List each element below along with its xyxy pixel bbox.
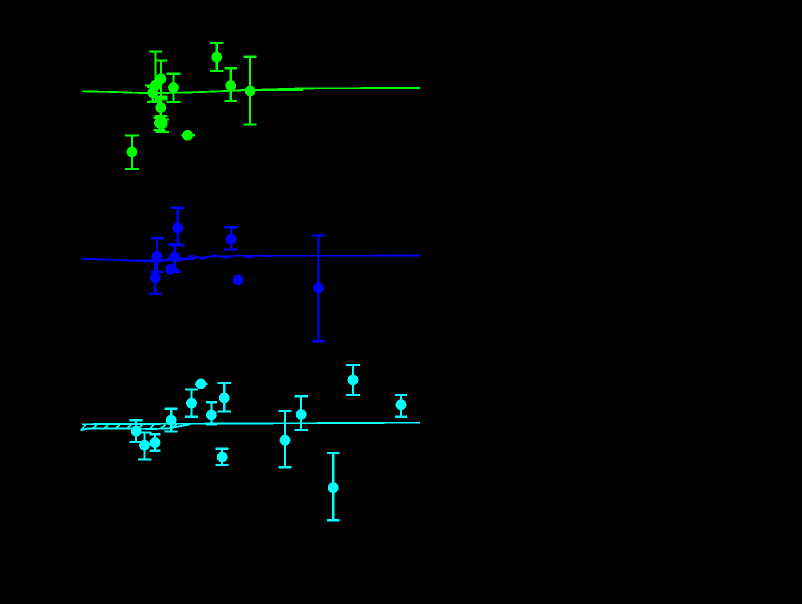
blue point B8 long-bar marker <box>313 283 324 294</box>
cyan point Cb marker <box>186 398 197 409</box>
blue point B2 cluster marker <box>152 251 163 262</box>
blue point B5 marker <box>165 264 176 275</box>
green point G-right horizontal bar <box>239 89 303 91</box>
cyan point Ca horizontal bar <box>195 383 208 385</box>
green point G-right error bar <box>244 57 257 125</box>
blue point B5 horizontal bar <box>167 269 180 271</box>
blue point B8 long-bar error bar <box>312 235 325 341</box>
green point G-top error bar <box>210 43 224 71</box>
cyan point Cj marker <box>280 435 291 446</box>
green point G-top marker <box>211 52 222 63</box>
cyan band lower boundary <box>81 424 191 430</box>
green point G-right marker <box>245 86 256 97</box>
cyan point Ch error bar <box>149 434 160 451</box>
blue point B7 low marker <box>233 275 244 286</box>
blue point B1 high error bar <box>171 208 185 245</box>
green point G-low isolated marker <box>127 147 138 158</box>
green point G-iso marker <box>182 130 193 141</box>
blue point B7 horizontal bar <box>234 279 242 281</box>
blue point B6 mid error bar <box>224 227 238 249</box>
blue point B4 cluster-right marker <box>169 252 180 263</box>
blue fit curve 2 <box>82 255 420 261</box>
cyan point Ce marker <box>166 415 177 426</box>
blue fit curve 1 <box>82 255 420 261</box>
green point Gf low-pair-left error bar <box>153 118 165 130</box>
green point Gd cluster-right error bar <box>167 74 181 102</box>
green point Gf low-pair-left marker <box>154 118 165 129</box>
blue point B4 horizontal bar <box>167 258 196 260</box>
green point Ge below-cluster marker <box>155 102 166 113</box>
cyan point Cl marker <box>328 482 339 493</box>
green point G-iso horizontal bar <box>181 134 195 136</box>
cyan point Cb error bar <box>185 390 198 417</box>
green point Gg low-pair-right marker <box>157 118 168 129</box>
cyan point Cj error bar <box>278 411 291 467</box>
cyan point Cf marker <box>131 426 142 437</box>
blue point B6 mid marker <box>226 234 237 245</box>
cyan panel: measurements with fit line and hatched band <box>81 365 421 520</box>
green point Gd cluster-right marker <box>168 82 179 93</box>
cyan point Cg marker <box>139 440 150 451</box>
cyan point Cg error bar <box>138 433 152 460</box>
blue point B1 high marker <box>172 222 183 233</box>
blue panel: measurements with two fit curves <box>82 208 420 341</box>
green point Ga cluster-top marker <box>156 73 167 84</box>
cyan point Ca no-bar marker <box>196 379 207 390</box>
green point G-mid error bar <box>225 68 237 101</box>
cyan point Ci error bar <box>216 449 229 465</box>
green fit line <box>82 88 420 93</box>
cyan point Ci marker <box>217 452 228 463</box>
cyan point Cf error bar <box>130 420 143 442</box>
green point Gc cluster-left error bar <box>147 87 158 102</box>
green panel: measurements with fit line <box>82 43 420 169</box>
cyan fit line <box>82 423 420 425</box>
green point Ga cluster-top error bar <box>155 60 168 96</box>
cyan point Cm error bar <box>346 365 360 395</box>
green point Ge below-cluster error bar <box>154 99 167 116</box>
cyan point Ck error bar <box>294 396 307 430</box>
blue point B2 cluster error bar <box>150 238 164 272</box>
cyan point Cn error bar <box>395 395 407 417</box>
blue point B3 low-left marker <box>150 272 161 283</box>
green point G-low isolated error bar <box>125 135 139 169</box>
cyan band hatch rungs <box>81 425 188 431</box>
cyan point Cc marker <box>219 393 230 404</box>
blue point B3 low-left error bar <box>149 262 162 294</box>
cyan point Ch marker <box>150 437 161 448</box>
cyan point Ck marker <box>296 409 307 420</box>
green point Gc cluster-left marker <box>147 87 158 98</box>
green point Gb cluster marker <box>150 80 161 91</box>
green point Gb cluster error bar <box>149 52 162 102</box>
blue point B4 cluster-right error bar <box>168 244 181 271</box>
cyan point Cc error bar <box>217 383 231 412</box>
cyan point Ce error bar <box>165 409 178 432</box>
green point G-mid marker <box>225 80 236 91</box>
green point Gg low-pair-right error bar <box>156 120 170 133</box>
cyan point Cd error bar <box>206 402 217 424</box>
cyan point Cd marker <box>206 410 217 421</box>
green point Gb horizontal bar <box>145 84 161 86</box>
cyan point Cn marker <box>396 399 407 410</box>
cyan point Cl error bar <box>327 453 340 520</box>
cyan point Cm marker <box>348 375 359 386</box>
